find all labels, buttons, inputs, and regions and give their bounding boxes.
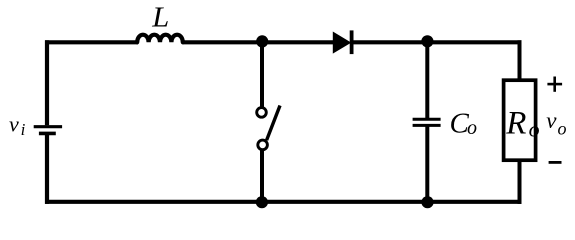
- node: top switch junction: [256, 35, 268, 47]
- svg-text:o: o: [529, 117, 540, 142]
- node: bottom switch junction: [256, 196, 268, 208]
- capacitor Co: [413, 118, 441, 121]
- wire: right vertical lower: [518, 160, 522, 204]
- wire: switch lower lead: [260, 151, 264, 204]
- wire: capacitor upper lead: [425, 40, 429, 118]
- wire: left vertical lower: [45, 133, 49, 204]
- svg-text:o: o: [558, 119, 567, 139]
- node: top capacitor junction: [421, 35, 433, 47]
- polarity plus: [547, 83, 562, 86]
- switch S lower contact: [258, 140, 268, 150]
- wire: right vertical upper: [518, 40, 522, 81]
- inductor L: [137, 35, 183, 43]
- wire: left vertical upper: [45, 40, 49, 125]
- diode D: [333, 32, 350, 52]
- polarity minus: [549, 161, 562, 164]
- svg-text:i: i: [21, 120, 26, 139]
- wire: top-left segment: [45, 40, 138, 44]
- wire: top-right segment: [352, 40, 522, 44]
- node: bottom capacitor junction: [421, 196, 433, 208]
- source vi (battery): [34, 125, 62, 128]
- svg-text:v: v: [9, 112, 19, 137]
- svg-text:R: R: [505, 106, 526, 142]
- switch S upper contact: [257, 108, 267, 118]
- wire: bottom: [45, 200, 522, 204]
- resistor Ro (box): [504, 80, 536, 160]
- svg-text:o: o: [467, 117, 477, 139]
- wire: capacitor lower lead: [425, 125, 429, 203]
- switch lever: [267, 106, 280, 141]
- wire: top-middle segment: [183, 40, 336, 44]
- svg-text:L: L: [151, 2, 169, 34]
- wire: switch upper lead: [260, 40, 264, 108]
- svg-text:v: v: [546, 108, 557, 133]
